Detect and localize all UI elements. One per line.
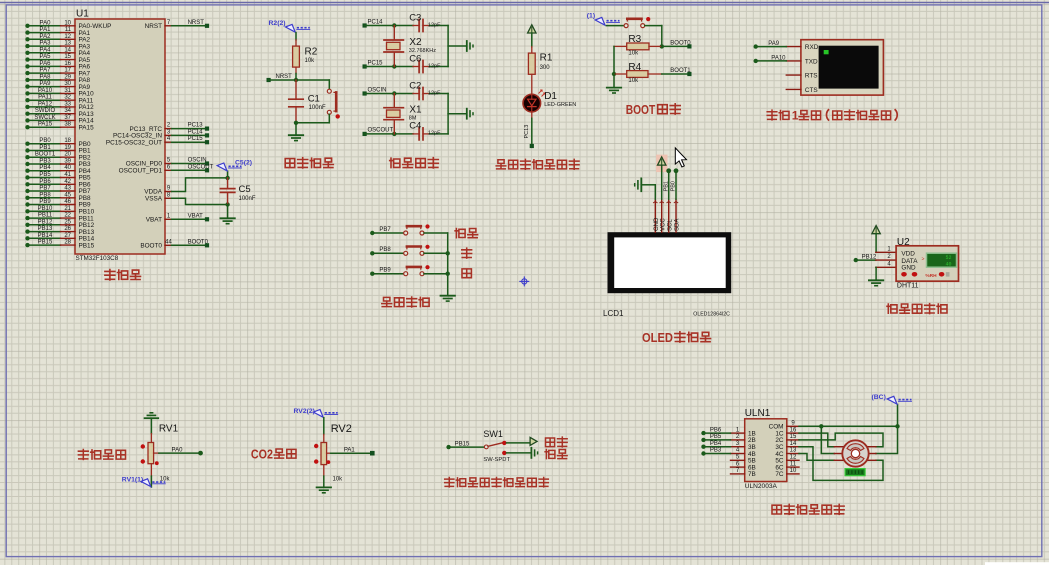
svg-text:14: 14 [64, 47, 71, 53]
svg-text:(BC): (BC) [872, 394, 886, 401]
svg-text:18: 18 [64, 138, 71, 144]
svg-text:PA6: PA6 [40, 61, 52, 67]
svg-text:PA15: PA15 [79, 124, 95, 131]
svg-text:PA0: PA0 [172, 448, 184, 454]
svg-text:300: 300 [540, 65, 551, 71]
svg-text:BOOT: BOOT [626, 102, 656, 117]
svg-text:PB0: PB0 [39, 138, 51, 144]
svg-text:100nF: 100nF [309, 105, 326, 111]
svg-text:19: 19 [64, 145, 71, 151]
svg-text:15: 15 [790, 434, 797, 440]
svg-text:RV1(1): RV1(1) [122, 476, 143, 483]
svg-text:PB1: PB1 [663, 181, 669, 191]
svg-text:PB9: PB9 [39, 199, 51, 205]
svg-text:PA1: PA1 [344, 448, 356, 454]
svg-text:OLED12864I2C: OLED12864I2C [693, 311, 730, 317]
svg-text:VDD: VDD [901, 250, 915, 257]
svg-text:PB14: PB14 [38, 233, 53, 239]
svg-text:PC14: PC14 [368, 19, 384, 25]
svg-text:STM32F103C8: STM32F103C8 [76, 255, 119, 262]
svg-text:R2: R2 [305, 46, 318, 57]
svg-text:52: 52 [945, 255, 951, 261]
svg-text:C5(2): C5(2) [235, 160, 252, 167]
svg-text:PB12: PB12 [38, 219, 53, 225]
svg-text:VSSA: VSSA [145, 196, 163, 203]
svg-text:25: 25 [64, 219, 71, 225]
svg-text:12pF: 12pF [428, 22, 441, 28]
svg-text:R2(2): R2(2) [269, 20, 286, 27]
svg-text:VBAT: VBAT [188, 213, 204, 219]
svg-text:PA7: PA7 [40, 68, 52, 74]
svg-text:PB15: PB15 [79, 242, 95, 249]
svg-text:PC15: PC15 [188, 136, 204, 142]
svg-text:PB15: PB15 [38, 240, 53, 246]
svg-text:37: 37 [64, 115, 71, 121]
svg-text:PA9: PA9 [768, 41, 780, 47]
svg-text:SWCLK: SWCLK [34, 115, 55, 121]
svg-text:OSCIN: OSCIN [188, 158, 207, 164]
svg-text:PA10: PA10 [771, 55, 786, 61]
svg-text:PC13: PC13 [188, 123, 204, 129]
svg-text:46: 46 [64, 199, 71, 205]
svg-text:PA11: PA11 [38, 95, 52, 101]
svg-text:17: 17 [64, 68, 71, 74]
svg-text:>: > [922, 256, 925, 262]
svg-text:PB3: PB3 [710, 448, 722, 454]
svg-text:13: 13 [64, 41, 71, 47]
svg-text:33: 33 [64, 101, 71, 107]
svg-text:SW-SPDT: SW-SPDT [483, 457, 510, 463]
svg-text:29: 29 [64, 74, 71, 80]
svg-text:RV1: RV1 [159, 424, 179, 435]
svg-text:NRST: NRST [145, 23, 162, 30]
svg-text:32: 32 [64, 95, 71, 101]
svg-text:C5: C5 [239, 184, 251, 195]
svg-text:16: 16 [64, 61, 71, 67]
svg-text:X1: X1 [409, 105, 422, 116]
svg-text:PB4: PB4 [710, 441, 722, 447]
svg-text:PA0: PA0 [40, 20, 52, 26]
svg-text:X2: X2 [409, 37, 422, 48]
svg-text:16: 16 [790, 427, 797, 433]
svg-text:PB11: PB11 [38, 213, 53, 219]
svg-text:41: 41 [64, 172, 71, 178]
svg-text:PB10: PB10 [38, 206, 53, 212]
svg-text:PB12: PB12 [862, 254, 877, 260]
svg-text:PA5: PA5 [40, 54, 52, 60]
svg-text:PC15: PC15 [368, 60, 384, 66]
svg-text:PB0: PB0 [671, 181, 677, 191]
svg-text:VBAT: VBAT [146, 217, 162, 224]
svg-text:PA12: PA12 [38, 101, 53, 107]
svg-text:10: 10 [64, 20, 71, 26]
svg-text:11: 11 [790, 461, 797, 467]
svg-text:7C: 7C [775, 471, 784, 478]
svg-text:SCL: SCL [667, 219, 673, 231]
svg-text:CTS: CTS [805, 87, 818, 94]
svg-text:40: 40 [64, 165, 71, 171]
svg-text:NRST: NRST [188, 20, 205, 26]
svg-text:PB4: PB4 [39, 165, 51, 171]
svg-text:BOOT0: BOOT0 [670, 41, 691, 47]
svg-text:BOOT1: BOOT1 [670, 68, 691, 74]
svg-text:PB8: PB8 [379, 247, 391, 253]
svg-text:44: 44 [165, 239, 172, 245]
svg-text:12pF: 12pF [428, 90, 441, 96]
svg-text:38: 38 [64, 122, 71, 128]
svg-text:RV2(2): RV2(2) [294, 408, 315, 415]
svg-text:31: 31 [64, 88, 71, 94]
svg-text:RTS: RTS [805, 73, 818, 80]
svg-text:20: 20 [64, 152, 71, 158]
svg-text:42: 42 [64, 179, 71, 185]
svg-text:13: 13 [790, 448, 797, 454]
svg-text:C2: C2 [409, 80, 421, 91]
svg-text:PA3: PA3 [40, 41, 52, 47]
svg-text:8M: 8M [409, 116, 417, 122]
svg-text:OSCIN: OSCIN [368, 87, 387, 93]
svg-text:PB6: PB6 [710, 427, 722, 433]
svg-text:SDA: SDA [675, 219, 681, 231]
svg-text:R3: R3 [628, 34, 641, 45]
svg-text:10k: 10k [628, 78, 639, 84]
svg-text:21: 21 [64, 206, 71, 212]
svg-text:28: 28 [64, 240, 71, 246]
svg-text:PC14: PC14 [188, 129, 204, 135]
svg-text:VCC: VCC [660, 218, 666, 231]
svg-text:PB15: PB15 [455, 442, 470, 448]
svg-text:PC13: PC13 [524, 125, 530, 139]
svg-text:OSCOUT_PD1: OSCOUT_PD1 [119, 168, 163, 175]
svg-text:D1: D1 [544, 91, 557, 102]
svg-text:10k: 10k [305, 58, 316, 64]
svg-text:PB7: PB7 [379, 227, 391, 233]
svg-text:34: 34 [64, 108, 71, 114]
svg-text:U1: U1 [76, 9, 89, 20]
svg-text:LCD1: LCD1 [603, 309, 624, 318]
svg-text:OSCOUT: OSCOUT [188, 164, 214, 170]
svg-text:10k: 10k [160, 477, 171, 483]
svg-text:NRST: NRST [276, 74, 293, 80]
svg-text:LED-GREEN: LED-GREEN [544, 102, 576, 108]
svg-text:PB3: PB3 [39, 159, 51, 165]
svg-text:PC15-OSC32_OUT: PC15-OSC32_OUT [106, 139, 162, 146]
svg-text:BOOT0: BOOT0 [140, 243, 162, 250]
svg-text:GND: GND [654, 217, 660, 231]
svg-text:27: 27 [64, 233, 71, 239]
svg-text:100nF: 100nF [239, 196, 256, 202]
svg-text:10k: 10k [628, 51, 639, 57]
svg-text:BOOT1: BOOT1 [35, 152, 56, 158]
svg-text:22: 22 [64, 213, 71, 219]
svg-text:RV2: RV2 [331, 423, 352, 435]
svg-text:%RH: %RH [925, 273, 937, 279]
svg-text:PB5: PB5 [39, 172, 51, 178]
svg-text:OLED: OLED [642, 330, 673, 345]
svg-text:40: 40 [945, 262, 951, 268]
svg-text:1: 1 [792, 108, 799, 122]
svg-text:C3: C3 [409, 12, 421, 23]
svg-text:PB8: PB8 [39, 192, 51, 198]
svg-text:10: 10 [790, 468, 797, 474]
svg-text:GND: GND [901, 265, 916, 272]
svg-text:C1: C1 [308, 94, 320, 105]
svg-text:R1: R1 [540, 53, 553, 64]
svg-text:30: 30 [64, 81, 71, 87]
svg-text:14: 14 [790, 441, 797, 447]
svg-text:26: 26 [64, 226, 71, 232]
svg-text:PB1: PB1 [39, 145, 51, 151]
svg-text:PA4: PA4 [40, 47, 52, 53]
svg-text:PA8: PA8 [40, 74, 52, 80]
svg-text:12: 12 [64, 34, 71, 40]
svg-text:PB9: PB9 [379, 268, 391, 274]
svg-text:10k: 10k [333, 477, 344, 483]
svg-text:PA2: PA2 [40, 34, 52, 40]
svg-text:PA10: PA10 [38, 88, 53, 94]
svg-text:12pF: 12pF [428, 63, 441, 69]
svg-text:TXD: TXD [805, 58, 818, 65]
svg-text:43: 43 [64, 186, 71, 192]
svg-text:45: 45 [64, 192, 71, 198]
svg-text:DHT11: DHT11 [897, 283, 919, 290]
svg-text:7B: 7B [748, 471, 756, 478]
svg-text:PA15: PA15 [38, 122, 53, 128]
svg-text:ULN1: ULN1 [745, 408, 771, 419]
svg-text:ULN2003A: ULN2003A [745, 483, 778, 490]
svg-text:PB6: PB6 [39, 179, 51, 185]
svg-text:39: 39 [64, 159, 71, 165]
svg-text:R4: R4 [628, 62, 641, 73]
svg-text:PB5: PB5 [710, 434, 722, 440]
svg-text:11: 11 [65, 27, 72, 33]
svg-text:12pF: 12pF [428, 131, 441, 137]
svg-text:32.768KHz: 32.768KHz [409, 48, 436, 54]
svg-text:OSCOUT: OSCOUT [368, 128, 394, 134]
svg-text:CO2: CO2 [251, 448, 273, 462]
svg-text:C6: C6 [409, 53, 421, 64]
svg-text:U2: U2 [897, 237, 910, 248]
svg-text:SWDIO: SWDIO [35, 108, 56, 114]
svg-text:SW1: SW1 [483, 429, 503, 439]
svg-text:12: 12 [790, 455, 797, 461]
svg-text:PB7: PB7 [39, 186, 51, 192]
svg-text:PB13: PB13 [38, 226, 53, 232]
svg-text:RXD: RXD [805, 44, 819, 51]
svg-text:PA1: PA1 [40, 27, 52, 33]
svg-text:(1): (1) [587, 13, 595, 20]
svg-text:PA9: PA9 [40, 81, 52, 87]
svg-text:C4: C4 [409, 121, 421, 132]
svg-text:15: 15 [64, 54, 71, 60]
